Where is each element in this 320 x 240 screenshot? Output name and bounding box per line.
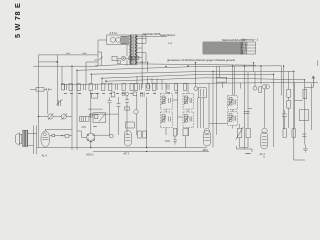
svg-text:5 W 78 E: 5 W 78 E	[13, 2, 22, 38]
bottom wire right	[237, 146, 253, 152]
wire v244.5	[244, 67, 246, 150]
right vert 294.6	[294, 83, 296, 129]
row circle C23	[147, 85, 151, 89]
wire v195.5	[195, 63, 197, 87]
T3 coil	[229, 98, 232, 106]
connector circle	[109, 134, 113, 138]
bottom bus 147.5	[37, 147, 208, 149]
AVC wire to T3	[209, 123, 228, 125]
tuner frame bottom	[33, 65, 98, 67]
V3 anode resistor b	[143, 131, 147, 138]
output transformer bar b	[25, 130, 27, 146]
wire v209	[208, 83, 210, 128]
winding label stub	[137, 35, 167, 37]
tie 294-303	[295, 100, 303, 102]
wire drop x281.5	[281, 66, 283, 96]
resistor R31	[246, 128, 250, 138]
row labels smudge	[64, 93, 149, 95]
wire gang row	[38, 116, 72, 118]
value label	[165, 140, 170, 142]
row resistor R11	[69, 84, 72, 91]
cap below T1	[173, 136, 177, 145]
right edge stub	[317, 61, 319, 67]
cap on v127	[125, 100, 129, 102]
wire v216.5	[216, 66, 218, 135]
row box R26	[184, 84, 187, 91]
small box under grid cap	[259, 87, 262, 93]
junction dot	[61, 135, 62, 136]
row box R25	[175, 84, 178, 91]
row resistor R13	[89, 84, 92, 91]
svg-text:1-4b: 1-4b	[66, 53, 71, 55]
wire v232.5	[232, 67, 234, 129]
wire v47.8	[47, 91, 49, 114]
T1 coil	[162, 96, 165, 104]
wire v127	[126, 96, 128, 136]
box below T2	[183, 129, 189, 136]
tuner vertical left	[37, 55, 39, 148]
component box on bus	[217, 77, 227, 82]
svg-text:AF 3: AF 3	[124, 152, 130, 156]
cap on v118.5	[117, 104, 121, 106]
IF can T3 upper	[228, 96, 238, 110]
V3 electrodes	[126, 135, 131, 141]
row resistor R12	[77, 84, 80, 91]
extra label smudge	[246, 153, 251, 155]
bus AVC C	[102, 74, 274, 78]
svg-text:6,3V: 6,3V	[168, 43, 173, 45]
caps between v244 v248	[244, 109, 253, 114]
capacitor C2	[47, 88, 53, 91]
padding cap	[94, 115, 98, 119]
volume pot R30	[237, 128, 242, 138]
svg-text:gemessen mit Röhrenvoltmeter g: gemessen mit Röhrenvoltmeter gegen Chass…	[167, 58, 236, 62]
rectifier tube V6 envelope a	[110, 37, 115, 42]
fuse box	[112, 56, 117, 61]
row resistor R22	[153, 84, 156, 91]
bus ground E	[62, 82, 318, 84]
svg-text:AL 4: AL 4	[260, 152, 266, 156]
wire h62 left	[86, 61, 98, 63]
cap C8	[140, 92, 144, 97]
detector diode circle a	[262, 85, 266, 89]
wire v78	[76, 70, 78, 150]
wire v255	[254, 63, 256, 87]
svg-text:Netztrafo 5378: Netztrafo 5378	[143, 32, 161, 36]
wire transformer bottom drop	[141, 62, 143, 88]
mains transformer core	[133, 34, 134, 65]
wire v36.6	[36, 126, 38, 155]
cap on v109.5	[108, 100, 112, 102]
svg-text:ACH 1: ACH 1	[86, 153, 94, 157]
row box C9b	[134, 84, 137, 91]
wire box left lead	[98, 40, 107, 66]
mains transformer secondary winding	[135, 35, 137, 65]
IF can T2 upper	[183, 94, 194, 110]
wire V1 side	[50, 135, 72, 137]
resistor R7	[133, 92, 137, 96]
speaker cone	[15, 133, 19, 146]
wire drop x273.6	[273, 74, 275, 147]
wire v203.4	[202, 98, 204, 128]
tap bus vertical	[142, 35, 146, 62]
right vert 289	[288, 71, 290, 89]
output pentode V5	[261, 132, 268, 149]
grid cap circle V4	[194, 87, 198, 91]
coil labels	[82, 126, 97, 129]
grid cap circle V5	[253, 86, 257, 90]
wire v62	[61, 66, 63, 84]
mains cable hatched block	[203, 42, 244, 55]
T2b coil	[185, 115, 188, 123]
tuner vertical mid	[57, 55, 59, 106]
wire lamp row	[117, 57, 128, 59]
resistor below T1	[173, 129, 177, 137]
wire y114	[90, 114, 118, 116]
wire drop x304.4	[304, 80, 313, 88]
wire R1 leads	[30, 88, 47, 90]
resistor R9	[125, 107, 130, 110]
stage wires	[240, 124, 249, 148]
row resistor R19	[130, 84, 133, 91]
IF tube V3	[124, 131, 131, 147]
det tube V4	[203, 131, 210, 147]
wire v261 from bus	[260, 66, 262, 84]
output transformer bar a	[23, 130, 25, 146]
resistor R1	[36, 88, 44, 92]
T1b cap	[169, 117, 171, 122]
V1 electrodes	[42, 129, 48, 139]
row cap C20	[140, 84, 142, 90]
wire V2 grid up	[90, 91, 92, 133]
box on V1 wire b	[65, 134, 69, 137]
cap C47	[302, 134, 307, 137]
tuning gang C4	[48, 114, 53, 119]
bus anode A	[77, 66, 282, 71]
wire v101.6	[98, 52, 102, 66]
output pentode V5 top circle	[262, 128, 267, 133]
resistor R5	[92, 93, 98, 98]
bus heater D	[106, 78, 304, 81]
V2 pins	[87, 134, 89, 136]
core arrows T3	[228, 99, 233, 122]
wire v147.5	[147, 63, 149, 72]
wire v186	[185, 136, 187, 148]
trimmer cap C3	[57, 100, 63, 105]
wire h109	[88, 108, 103, 110]
wire v127	[126, 45, 128, 66]
wire v118.5	[118, 97, 120, 135]
right vert 303	[304, 87, 306, 144]
heater comp boxes	[132, 57, 135, 60]
C43 lead	[283, 120, 285, 129]
wire v86	[85, 62, 87, 84]
row cap C24	[167, 84, 169, 89]
mains transformer primary winding	[130, 35, 132, 65]
wire v248	[247, 72, 249, 129]
coupling cap C43	[282, 110, 287, 120]
right vert 283.6	[283, 66, 285, 129]
svg-text:d 6,3: d 6,3	[242, 52, 248, 55]
ground right	[303, 145, 308, 152]
bottom bus 151.5	[93, 151, 209, 153]
pot wiper arrow	[236, 127, 244, 140]
row resistor R21	[146, 84, 149, 91]
det tube V4 top circle	[204, 128, 209, 133]
row resistor R15	[102, 84, 105, 91]
IF can T3 lower	[228, 112, 238, 126]
detector diode circle b	[265, 85, 269, 89]
variable core arrow	[99, 114, 105, 121]
background paper	[0, 0, 320, 176]
transformer taps	[137, 35, 146, 62]
tuner vertical right	[71, 66, 73, 150]
svg-text:AL 4: AL 4	[42, 153, 48, 157]
bottom far right wires	[263, 156, 265, 159]
oscillator coil box	[93, 113, 106, 123]
extra drops	[220, 66, 241, 96]
dial antenna arrow	[312, 76, 315, 87]
svg-text:5-8b: 5-8b	[82, 53, 87, 55]
resistor R40	[287, 89, 291, 97]
wire v109.5	[109, 97, 111, 135]
wire v188	[187, 83, 189, 135]
box on V1 wire a	[52, 134, 55, 136]
switch junction dot	[56, 61, 58, 63]
svg-text:Skalenlampen: Skalenlampen	[160, 34, 176, 37]
wire V1 anode top	[45, 128, 72, 130]
wire v136.8	[136, 96, 138, 135]
T2 coil	[185, 96, 188, 104]
osc trimmer circle	[89, 114, 93, 118]
output tube V1 envelope	[41, 131, 50, 147]
rectifier enclosure box	[107, 35, 129, 45]
row cap C14	[96, 84, 98, 90]
coil box ticks	[82, 117, 86, 122]
wire v264.5	[264, 89, 266, 128]
switch arrow	[99, 57, 104, 61]
wire v177.6	[177, 84, 179, 135]
box B44	[299, 110, 308, 121]
shield box coils	[200, 89, 203, 97]
row drop wires	[137, 76, 162, 90]
wire drop x293.8	[294, 71, 305, 160]
capacitor block C60	[121, 36, 124, 43]
wire v213	[212, 72, 214, 148]
can link stubs	[172, 100, 183, 117]
mixer tube V2	[87, 133, 95, 141]
pilot lamp b	[128, 56, 132, 60]
R40-R41 link	[288, 97, 290, 128]
V1 inner cathode	[44, 133, 47, 136]
T3b cap	[234, 116, 236, 121]
rectifier tube V6 envelope b	[116, 37, 121, 42]
row resistor R18	[122, 84, 125, 91]
tuner mid wire	[38, 61, 57, 63]
padder circle	[134, 110, 138, 114]
T2 cap	[190, 98, 192, 103]
row resistor R16	[109, 84, 112, 91]
shield box	[198, 88, 206, 98]
right vert 311.7	[311, 84, 313, 131]
speaker magnet	[19, 134, 21, 143]
row cap C9	[84, 84, 86, 90]
T1 cap	[169, 98, 171, 103]
bus left stubs	[91, 74, 106, 83]
resistor R42	[303, 89, 307, 98]
resistor R45	[283, 129, 286, 137]
wire v146.6	[146, 97, 148, 148]
V3 anode resistor a	[138, 131, 142, 138]
wire v197.8	[197, 98, 199, 128]
IF can T1 lower	[160, 112, 172, 128]
wire v33.6	[33, 126, 35, 155]
V5 electrodes	[262, 137, 267, 146]
resistor R41	[287, 100, 291, 108]
voltage table	[241, 42, 256, 54]
band coil box	[80, 117, 90, 122]
IF can T2 lower	[183, 112, 194, 128]
T2b cap	[190, 117, 192, 122]
row box R8	[62, 84, 65, 90]
row cap C10	[65, 84, 67, 90]
V4 electrodes	[205, 135, 210, 141]
T1b coil	[162, 115, 165, 123]
coupling circles	[122, 92, 125, 95]
row label dashes 2	[78, 92, 178, 95]
wire v166	[165, 83, 167, 135]
svg-text:A Z 11: A Z 11	[110, 31, 118, 35]
row cap C17	[116, 84, 118, 90]
T3b coil	[229, 114, 232, 122]
lamp series box	[118, 60, 120, 64]
tuning gang C5	[61, 114, 66, 119]
resistor R46	[292, 129, 295, 137]
T3 cap	[234, 100, 236, 105]
core arrows T1 T2	[161, 98, 189, 124]
capacitor block C61	[124, 36, 127, 43]
svg-text:Netzanschluß 220V: Netzanschluß 220V	[222, 38, 246, 42]
V2 leads	[77, 131, 110, 148]
svg-text:AB 2: AB 2	[203, 148, 209, 152]
speaker wires	[28, 134, 37, 146]
wire v200.6	[200, 98, 202, 128]
bus screen B	[91, 71, 294, 74]
tuner frame top	[38, 54, 98, 56]
pilot lamp a	[122, 56, 126, 60]
resistor R6	[111, 92, 115, 97]
IF can T1 upper	[160, 94, 172, 110]
V3 top box	[126, 122, 135, 128]
bus L1 rectified supply	[95, 64, 256, 66]
